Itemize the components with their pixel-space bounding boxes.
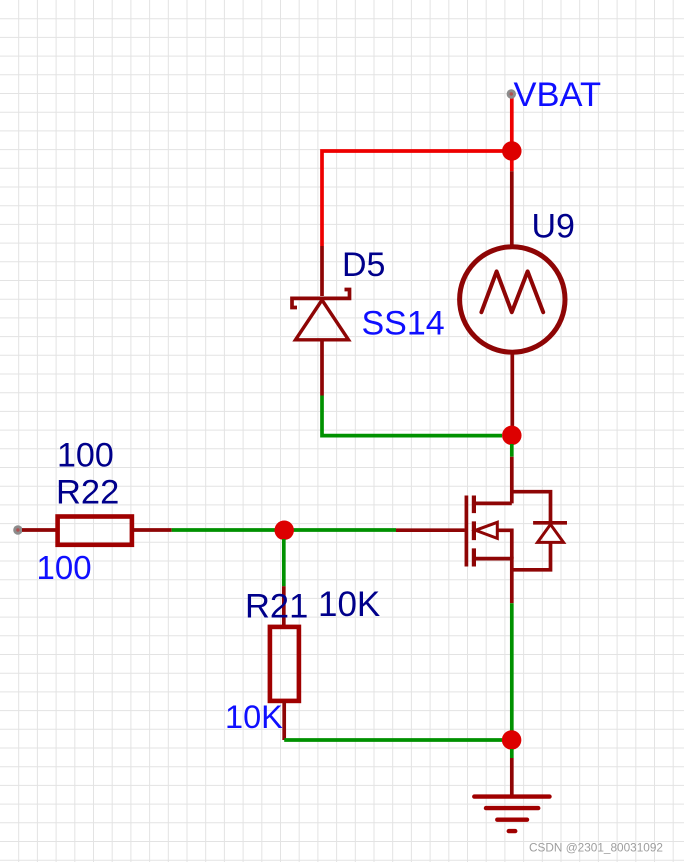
svg-text:R21: R21 (245, 588, 308, 626)
wire R21 bottom to ground junction (green) (284, 738, 502, 742)
diode D5 pin bottom (320, 340, 324, 396)
diode D5 triangle (296, 300, 349, 340)
wire gate net (green) (172, 528, 396, 532)
transistor Q gate bar (465, 496, 469, 567)
wire source to ground junction (green) (510, 603, 514, 731)
transistor Q body diode bar (533, 521, 567, 525)
transistor Q body diode link top (512, 492, 551, 523)
svg-text:VBAT: VBAT (514, 76, 602, 114)
transistor Q drain pin (510, 457, 514, 504)
transistor Q bulk link (497, 530, 512, 558)
motor U9 pin bottom (510, 352, 514, 428)
svg-text:R22: R22 (56, 474, 119, 512)
transistor Q gate pin (396, 528, 465, 532)
svg-text:SS14: SS14 (362, 305, 445, 343)
resistor R22 body (58, 517, 132, 545)
wire diode bottom to junction (green) (322, 396, 502, 436)
svg-text:100: 100 (57, 437, 114, 475)
ground symbol (474, 797, 549, 832)
power port VBAT pin dot (507, 89, 516, 98)
motor U9 circle (460, 247, 565, 352)
junction gate node (274, 521, 294, 541)
ground pin (510, 758, 514, 797)
resistor R21 pin top (282, 586, 286, 627)
svg-text:100: 100 (37, 549, 92, 586)
diode D5 schottky cathode bar (292, 290, 350, 308)
transistor Q body diode link bottom (512, 542, 551, 569)
motor U9 pin top (510, 171, 514, 247)
svg-text:CSDN @2301_80031092: CSDN @2301_80031092 (529, 841, 663, 855)
motor U9 M glyph (481, 271, 543, 312)
transistor Q bulk arrow (476, 522, 498, 538)
transistor Q drain connect (474, 502, 512, 506)
transistor Q channel segments (472, 496, 476, 567)
resistor R22 pin left (22, 528, 57, 532)
junction top (502, 141, 522, 161)
wire junction to R21 (green) (282, 539, 286, 586)
svg-text:U9: U9 (532, 208, 575, 246)
junction ground node (502, 730, 521, 750)
svg-text:10K: 10K (318, 585, 380, 624)
svg-text:10K: 10K (225, 699, 283, 735)
wire below junction (green stub) (510, 444, 514, 457)
resistor R22 pin dot (13, 525, 22, 534)
transistor Q body diode triangle (538, 524, 564, 542)
svg-text:D5: D5 (342, 246, 385, 284)
wire below ground junction (green stub) (510, 749, 514, 758)
transistor Q source connect (474, 559, 512, 570)
junction mid (drain node) (502, 426, 522, 446)
resistor R22 pin right (132, 528, 172, 532)
resistor R21 pin bottom (282, 701, 286, 740)
transistor Q source pin (510, 570, 514, 603)
wire VBAT net (red) (322, 96, 512, 246)
resistor R21 body (270, 627, 299, 701)
diode D5 pin top (320, 246, 324, 296)
